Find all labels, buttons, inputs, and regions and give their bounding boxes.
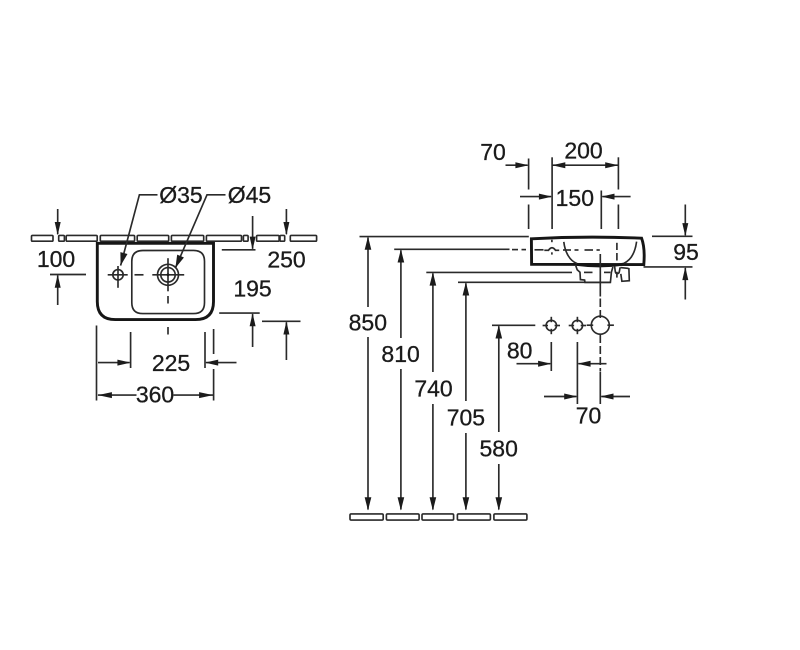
svg-text:705: 705 bbox=[447, 405, 485, 431]
dim 810 (tap height) bbox=[381, 249, 419, 510]
dim 100 (wall to hole center) bbox=[37, 209, 75, 305]
washbasin inner bowl (top view) bbox=[132, 250, 205, 313]
hidden line x=617 (overflow axis) bbox=[616, 243, 618, 278]
svg-text:360: 360 bbox=[136, 382, 174, 408]
dim 150 (top) bbox=[520, 185, 631, 211]
tap hole symbol (front view) bbox=[544, 240, 559, 255]
basin centerline (front view, dash-dot) bbox=[512, 249, 600, 251]
dim 195 (inner bowl depth) bbox=[219, 216, 271, 347]
svg-text:100: 100 bbox=[37, 246, 75, 272]
dim 225 (inner bowl width) bbox=[98, 332, 237, 376]
svg-text:Ø45: Ø45 bbox=[228, 182, 271, 208]
dim 80 (hole spacing) bbox=[507, 337, 607, 366]
dim 580 extension line (mounting holes level) bbox=[492, 324, 535, 326]
mounting hole 3 (large) bbox=[587, 316, 614, 334]
svg-text:810: 810 bbox=[381, 341, 419, 367]
dim 705 (trap height) bbox=[447, 282, 485, 510]
top dim extension verticals bbox=[529, 157, 619, 229]
dim 70 (top, wall offset) bbox=[480, 139, 528, 168]
svg-text:80: 80 bbox=[507, 337, 533, 363]
dim 250 (wall to front edge) bbox=[262, 209, 306, 360]
dim 95 (basin height) bbox=[644, 205, 699, 300]
dim 200 (top) bbox=[552, 137, 618, 168]
svg-text:225: 225 bbox=[152, 350, 190, 376]
inner bowl curves (front view) bbox=[564, 242, 637, 266]
overflow channel right (front view) bbox=[620, 268, 629, 282]
svg-text:250: 250 bbox=[267, 247, 305, 273]
tick below hole 1 bbox=[550, 342, 552, 371]
svg-text:95: 95 bbox=[673, 239, 699, 265]
label Ø35 with leader bbox=[120, 182, 202, 266]
overflow hook (front view) bbox=[615, 266, 621, 273]
dim 850 top extension line (rim level) bbox=[360, 236, 529, 238]
svg-text:580: 580 bbox=[480, 436, 518, 462]
svg-text:Ø35: Ø35 bbox=[159, 182, 202, 208]
dim 810 extension line (tap hole level) bbox=[394, 248, 509, 250]
dim 850 (rim height) bbox=[349, 237, 387, 511]
drain hole Ø45 (top view) bbox=[158, 264, 179, 285]
dim 705 extension line (trap level) bbox=[458, 281, 611, 283]
vertical centerline through drain (top view) bbox=[118, 258, 168, 334]
wall tile strip (top view) bbox=[32, 235, 317, 241]
svg-text:850: 850 bbox=[349, 310, 387, 336]
mounting hole 1 bbox=[543, 317, 560, 334]
mounting hole 2 bbox=[569, 317, 586, 334]
basin outer profile (front view) bbox=[531, 237, 644, 264]
svg-text:200: 200 bbox=[564, 137, 602, 163]
svg-text:740: 740 bbox=[414, 376, 452, 402]
dim 360 (outer width) bbox=[97, 326, 214, 408]
svg-text:70: 70 bbox=[480, 139, 506, 165]
dim 740 (drain height) bbox=[414, 272, 452, 510]
dim 580 (hole height) bbox=[480, 325, 518, 510]
washbasin outer rim (top view) bbox=[97, 243, 213, 319]
svg-text:195: 195 bbox=[233, 275, 271, 301]
label Ø45 with leader bbox=[175, 182, 271, 268]
tick below hole 2 bbox=[576, 342, 578, 404]
dim 70 (hole spacing) bbox=[544, 394, 630, 429]
floor tile strip bbox=[350, 514, 527, 520]
tap hole Ø35 (top view) bbox=[113, 270, 123, 280]
svg-text:150: 150 bbox=[556, 185, 594, 211]
drain centerline vertical x=600 bbox=[599, 254, 601, 404]
dim 740 extension line (drain level) bbox=[426, 271, 610, 273]
svg-text:70: 70 bbox=[576, 403, 602, 429]
drain fitting outline (front view) bbox=[576, 266, 613, 283]
horizontal centerline through holes bbox=[50, 274, 184, 276]
